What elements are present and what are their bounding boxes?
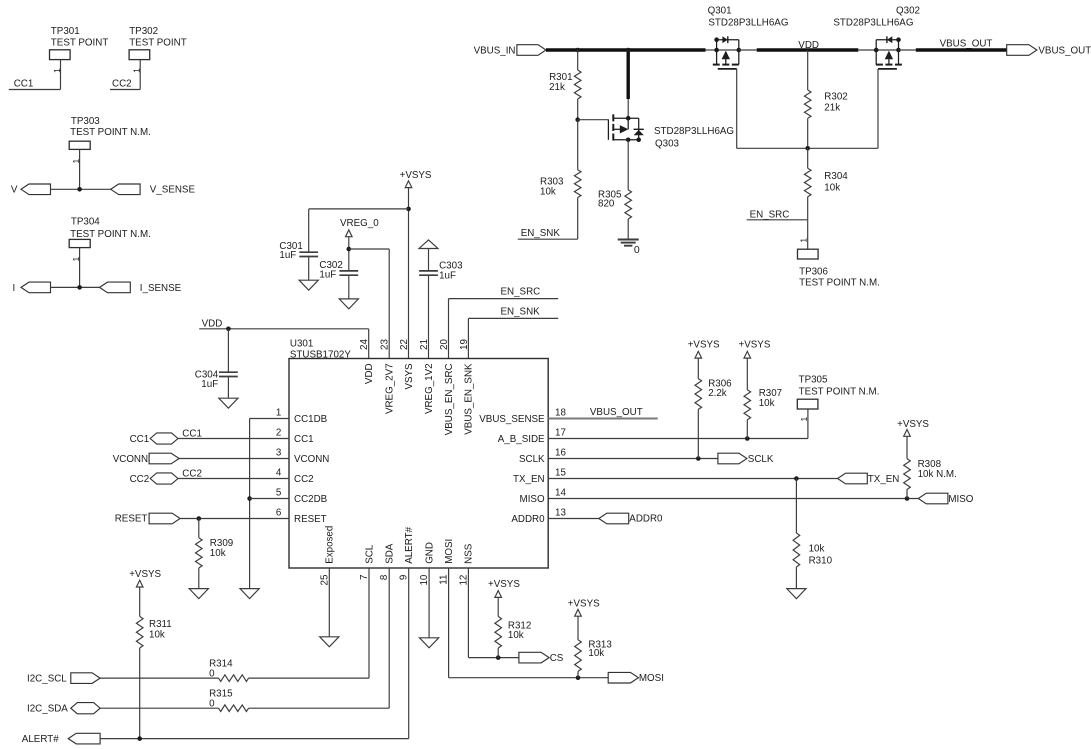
wire +VSYS to R308 bbox=[906, 436, 908, 458]
svg-text:10k: 10k bbox=[588, 648, 604, 659]
svg-text:Exposed: Exposed bbox=[325, 526, 336, 564]
svg-text:CC1: CC1 bbox=[14, 78, 34, 89]
svg-text:+VSYS: +VSYS bbox=[568, 598, 600, 609]
svg-text:23: 23 bbox=[380, 339, 391, 350]
wire Q302 gate down bbox=[877, 69, 879, 148]
svg-text:Q303: Q303 bbox=[655, 138, 680, 149]
port CS bbox=[519, 652, 564, 664]
svg-text:TEST POINT: TEST POINT bbox=[129, 37, 187, 48]
ground GND pin bbox=[420, 638, 439, 648]
svg-text:RESET: RESET bbox=[294, 514, 327, 525]
port ADDR0 bbox=[599, 513, 663, 525]
svg-text:13: 13 bbox=[555, 507, 566, 518]
port MISO bbox=[918, 493, 974, 505]
svg-text:SDA: SDA bbox=[385, 543, 396, 564]
wire R315 to pin 8 SDA bbox=[249, 568, 390, 708]
wire VBUS to R301 bbox=[577, 50, 579, 70]
port CC1 bbox=[130, 433, 178, 445]
svg-text:10k: 10k bbox=[210, 548, 226, 559]
wire R309 to ground bbox=[198, 568, 200, 589]
svg-text:VREG_0: VREG_0 bbox=[340, 218, 379, 229]
svg-text:I: I bbox=[12, 283, 15, 294]
power VREG_0 bbox=[340, 218, 379, 237]
pin 1 label TP304 bbox=[71, 257, 81, 262]
junction CS / R312 bbox=[496, 655, 501, 660]
resistor R314 0 bbox=[209, 659, 249, 682]
svg-text:21k: 21k bbox=[549, 82, 565, 93]
svg-text:A_B_SIDE: A_B_SIDE bbox=[498, 434, 545, 445]
svg-text:18: 18 bbox=[555, 407, 566, 418]
wire Exposed pin 25 to ground bbox=[328, 568, 330, 637]
svg-text:CC2DB: CC2DB bbox=[294, 494, 328, 505]
wire I2C_SCL to R314 bbox=[100, 677, 218, 679]
svg-text:EN_SRC: EN_SRC bbox=[501, 286, 541, 297]
junction +VSYS / C301 bbox=[406, 207, 411, 212]
capacitor C302 1uF bbox=[319, 260, 358, 280]
svg-text:CC2: CC2 bbox=[112, 78, 132, 89]
junction gate bus bbox=[805, 146, 810, 151]
svg-text:1uF: 1uF bbox=[201, 379, 218, 390]
wire VDD to R302 bbox=[807, 50, 809, 90]
svg-text:0: 0 bbox=[209, 699, 215, 710]
wire VBUS_OUT thick bbox=[916, 48, 1007, 51]
power +VSYS R311 bbox=[129, 569, 161, 587]
svg-text:TEST POINT N.M.: TEST POINT N.M. bbox=[799, 387, 880, 398]
svg-text:STD28P3LLH6AG: STD28P3LLH6AG bbox=[708, 18, 788, 29]
svg-text:Q301: Q301 bbox=[708, 6, 732, 17]
svg-text:R310: R310 bbox=[809, 556, 833, 567]
wire Q302 drain out bbox=[899, 49, 916, 51]
svg-text:ALERT#: ALERT# bbox=[22, 734, 59, 745]
wire +VSYS to R311 bbox=[139, 587, 141, 616]
wire gate node to Q303 gate bbox=[578, 119, 609, 121]
node EN_SRC (net label) bbox=[747, 209, 808, 220]
wire RESET to pin 6 bbox=[180, 518, 289, 520]
resistor R315 0 bbox=[209, 689, 249, 712]
power +VSYS R312 bbox=[488, 579, 520, 597]
svg-text:TEST POINT N.M.: TEST POINT N.M. bbox=[70, 127, 151, 138]
wire arrow to C303 bbox=[428, 249, 430, 271]
junction ALERT# / R311 bbox=[137, 736, 142, 741]
power arrow C303 bbox=[419, 240, 438, 249]
resistor R302 21k bbox=[804, 90, 847, 118]
node EN_SRC upper (net label) bbox=[449, 286, 559, 298]
wire GND pin 10 to ground bbox=[428, 568, 430, 638]
testpoint TP304 bbox=[69, 217, 151, 248]
pin 1 label TP301 bbox=[52, 68, 62, 73]
port CC2 bbox=[130, 473, 178, 485]
svg-text:10k N.M.: 10k N.M. bbox=[918, 469, 957, 480]
svg-text:TP303: TP303 bbox=[71, 116, 100, 127]
wire R303 to EN_SNK bbox=[577, 198, 579, 240]
junction VDD / C304 bbox=[226, 327, 231, 332]
svg-text:+VSYS: +VSYS bbox=[739, 340, 771, 351]
resistor R313 10k bbox=[575, 639, 613, 671]
node CC1 label bbox=[182, 428, 202, 439]
svg-text:EN_SRC: EN_SRC bbox=[750, 209, 790, 220]
capacitor C304 1uF bbox=[195, 329, 238, 390]
svg-text:CC2: CC2 bbox=[182, 468, 202, 479]
wire VDD to Q302 bbox=[858, 49, 876, 51]
wire VBUS_IN thick bbox=[546, 48, 706, 51]
svg-text:12: 12 bbox=[458, 575, 469, 586]
testpoint TP305 bbox=[797, 374, 879, 409]
svg-text:+VSYS: +VSYS bbox=[688, 340, 720, 351]
svg-text:MISO: MISO bbox=[948, 494, 973, 505]
ground CC1DB bbox=[240, 589, 259, 599]
ground C301 bbox=[299, 280, 318, 290]
svg-text:SCLK: SCLK bbox=[519, 454, 545, 465]
wire pin 14 MISO bbox=[548, 498, 918, 500]
node EN_SNK (net label) bbox=[518, 228, 578, 239]
wire gate bus to R304 bbox=[807, 148, 809, 168]
svg-text:1uF: 1uF bbox=[319, 269, 336, 280]
svg-text:TP306: TP306 bbox=[799, 267, 828, 278]
port SCLK bbox=[718, 453, 774, 465]
wire pin 18 VBUS_SENSE gray bbox=[548, 418, 658, 420]
wire pin1 CC1DB bbox=[250, 418, 289, 420]
wire pin 12 NSS down bbox=[468, 568, 519, 658]
wire +VSYS down to pin 22 bbox=[408, 188, 410, 359]
resistor R310 10k bbox=[793, 533, 832, 567]
power +VSYS R306 bbox=[688, 340, 720, 359]
node CC2 label bbox=[182, 468, 202, 479]
svg-text:VBUS_OUT: VBUS_OUT bbox=[1038, 45, 1091, 56]
svg-text:TEST POINT: TEST POINT bbox=[51, 37, 109, 48]
svg-text:10k: 10k bbox=[508, 630, 524, 641]
svg-text:CC2: CC2 bbox=[294, 474, 314, 485]
svg-text:11: 11 bbox=[439, 575, 450, 585]
resistor R308 10k N.M. bbox=[904, 459, 957, 490]
svg-text:+VSYS: +VSYS bbox=[488, 579, 520, 590]
svg-text:9: 9 bbox=[399, 575, 410, 580]
port V_SENSE bbox=[111, 184, 196, 196]
node VBUS_OUT pin18 (net label) bbox=[590, 407, 643, 418]
testpoint TP301 bbox=[50, 26, 109, 60]
port VCONN bbox=[113, 453, 179, 465]
svg-text:TEST POINT N.M.: TEST POINT N.M. bbox=[70, 229, 151, 240]
wire pin 13 ADDR0 bbox=[548, 518, 599, 520]
wire TX_EN to R310 bbox=[795, 479, 797, 534]
wire +VSYS to R312 bbox=[497, 597, 499, 616]
port VBUS_IN bbox=[474, 45, 546, 57]
svg-text:8: 8 bbox=[379, 574, 390, 580]
pin 1 label TP302 bbox=[132, 68, 142, 73]
svg-text:EN_SNK: EN_SNK bbox=[521, 228, 561, 239]
wire +VSYS to R306 bbox=[697, 358, 699, 379]
svg-text:MOSI: MOSI bbox=[444, 539, 455, 564]
wire CC1 to pin 2 bbox=[178, 438, 289, 440]
junction RESET / R309 bbox=[197, 516, 202, 521]
svg-text:5: 5 bbox=[276, 488, 282, 499]
svg-text:24: 24 bbox=[359, 339, 370, 350]
port TX_EN bbox=[838, 473, 900, 485]
junction node V bbox=[77, 187, 82, 192]
svg-text:CC1: CC1 bbox=[294, 434, 314, 445]
junction gate node Q303 bbox=[575, 117, 580, 122]
svg-text:10k: 10k bbox=[540, 187, 556, 198]
svg-text:16: 16 bbox=[555, 447, 566, 458]
ground R310 bbox=[787, 589, 806, 599]
resistor R305 820 bbox=[598, 189, 632, 219]
wire R305 to ground bbox=[627, 219, 629, 240]
wire to Q301 source bbox=[706, 49, 717, 51]
svg-text:1uF: 1uF bbox=[439, 271, 456, 282]
wire I to I_SENSE bbox=[51, 286, 100, 288]
wire pin 11 MOSI down bbox=[449, 568, 609, 678]
transistor Q302 STD28P3LLH6AG bbox=[833, 6, 920, 69]
wire pin 16 SCLK bbox=[548, 458, 718, 460]
svg-text:VREG_1V2: VREG_1V2 bbox=[424, 363, 435, 414]
svg-text:CC1DB: CC1DB bbox=[294, 414, 328, 425]
wire gate bus Q301-Q302 bbox=[737, 147, 878, 149]
svg-text:10: 10 bbox=[419, 574, 430, 585]
svg-text:SCL: SCL bbox=[364, 544, 375, 564]
junction A_B_SIDE / R307 bbox=[745, 436, 750, 441]
junction VBUS at R301 bbox=[575, 48, 580, 53]
svg-text:TP302: TP302 bbox=[129, 26, 158, 37]
ground C304 bbox=[219, 398, 238, 408]
wire gate node to R303 bbox=[577, 120, 579, 170]
port I2C_SCL bbox=[27, 673, 100, 685]
wire C303 to pin 21 bbox=[428, 275, 430, 358]
wire C302 to ground bbox=[348, 275, 350, 299]
svg-text:R304: R304 bbox=[824, 171, 848, 182]
power +VSYS R308 bbox=[897, 419, 929, 436]
wire R302 to gate bus bbox=[807, 118, 809, 148]
junction MISO / R308 bbox=[905, 496, 910, 501]
power +VSYS main bbox=[400, 170, 432, 188]
svg-text:U301: U301 bbox=[290, 338, 313, 349]
junction VREG_0 / C302 bbox=[347, 247, 352, 252]
junction TX_EN / R310 bbox=[794, 476, 799, 481]
svg-text:10k: 10k bbox=[809, 544, 825, 555]
svg-text:VCONN: VCONN bbox=[294, 454, 329, 465]
node VDD left (net label) bbox=[199, 319, 369, 330]
wire R313 to MOSI net bbox=[577, 671, 579, 677]
svg-text:STUSB1702Y: STUSB1702Y bbox=[290, 350, 351, 361]
wire +VSYS to R313 bbox=[577, 616, 579, 640]
svg-text:CS: CS bbox=[550, 653, 564, 664]
svg-text:ADDR0: ADDR0 bbox=[629, 514, 663, 525]
svg-text:7: 7 bbox=[359, 575, 370, 580]
svg-text:R311: R311 bbox=[149, 619, 172, 630]
junction MOSI / R313 bbox=[576, 675, 581, 680]
wire Q303 drain thin bbox=[627, 99, 629, 118]
svg-text:VBUS_EN_SNK: VBUS_EN_SNK bbox=[464, 363, 475, 435]
svg-text:VBUS_EN_SRC: VBUS_EN_SRC bbox=[444, 363, 455, 435]
svg-text:I_SENSE: I_SENSE bbox=[140, 283, 182, 294]
wire EN_SRC to pin 20 bbox=[448, 299, 450, 359]
wire VREG_0 to pin 23 bbox=[349, 249, 389, 359]
svg-text:STD28P3LLH6AG: STD28P3LLH6AG bbox=[833, 18, 913, 29]
port I bbox=[12, 282, 50, 294]
svg-text:10k: 10k bbox=[759, 398, 775, 409]
wire R314 to pin 7 SCL bbox=[249, 568, 369, 678]
pin 1 label TP306 bbox=[799, 238, 809, 243]
junction CC2DB bbox=[247, 496, 252, 501]
wire R307 to A_B_SIDE bbox=[746, 420, 748, 439]
junction node I bbox=[77, 285, 82, 290]
svg-text:TP305: TP305 bbox=[799, 374, 828, 385]
transistor Q301 STD28P3LLH6AG bbox=[708, 6, 789, 69]
port ALERT# bbox=[22, 733, 100, 745]
svg-text:10k: 10k bbox=[149, 630, 165, 641]
svg-text:1: 1 bbox=[799, 238, 809, 243]
wire R311 to ALERT# net bbox=[139, 648, 141, 739]
capacitor C303 1uF bbox=[419, 260, 463, 281]
port VBUS_OUT bbox=[1007, 45, 1091, 57]
svg-text:MOSI: MOSI bbox=[639, 673, 664, 684]
power +VSYS R313 bbox=[568, 598, 600, 616]
svg-text:VDD: VDD bbox=[202, 319, 223, 330]
node CC2 (net label) bbox=[110, 78, 140, 89]
resistor R309 10k bbox=[196, 538, 234, 568]
ground C302 bbox=[339, 299, 358, 309]
wire TP303 down bbox=[79, 149, 81, 189]
svg-text:3: 3 bbox=[276, 448, 282, 459]
wire +VSYS to R307 bbox=[746, 358, 748, 390]
wire ALERT# to pin 9 bbox=[100, 568, 409, 739]
svg-text:VBUS_SENSE: VBUS_SENSE bbox=[479, 414, 545, 425]
wire TP304 down bbox=[79, 248, 81, 288]
wire VCONN to pin 3 bbox=[179, 458, 289, 460]
testpoint TP303 bbox=[69, 116, 151, 149]
wire A_B_SIDE up to TP305 bbox=[807, 409, 809, 438]
svg-text:TX_EN: TX_EN bbox=[513, 474, 545, 485]
svg-text:VDD: VDD bbox=[798, 40, 819, 51]
svg-text:VDD: VDD bbox=[364, 363, 375, 384]
wire C304 to ground bbox=[227, 377, 229, 399]
svg-text:1: 1 bbox=[276, 408, 281, 419]
svg-text:CC1: CC1 bbox=[130, 434, 150, 445]
svg-text:0: 0 bbox=[209, 668, 215, 679]
wire I2C_SDA to R315 bbox=[100, 707, 218, 709]
svg-text:2.2k: 2.2k bbox=[708, 388, 727, 399]
svg-text:VCONN: VCONN bbox=[113, 454, 148, 465]
pin 1 label TP303 bbox=[71, 159, 81, 164]
svg-text:TEST POINT N.M.: TEST POINT N.M. bbox=[799, 278, 880, 289]
resistor R301 21k bbox=[549, 70, 581, 99]
svg-text:SCLK: SCLK bbox=[748, 454, 774, 465]
svg-text:4: 4 bbox=[276, 468, 282, 479]
svg-text:VBUS_OUT: VBUS_OUT bbox=[940, 38, 993, 49]
wire R306 to SCLK bbox=[697, 409, 699, 458]
svg-text:MISO: MISO bbox=[520, 494, 545, 505]
svg-text:21: 21 bbox=[419, 339, 430, 350]
wire +VSYS to C301 bbox=[309, 208, 409, 210]
svg-text:STD28P3LLH6AG: STD28P3LLH6AG bbox=[654, 126, 734, 137]
svg-text:10k: 10k bbox=[824, 183, 840, 194]
svg-text:TX_EN: TX_EN bbox=[868, 474, 900, 485]
op-amp U301 STUSB1702Y outline bbox=[289, 338, 548, 568]
svg-text:14: 14 bbox=[555, 487, 566, 498]
wire pin5 CC2DB bbox=[250, 498, 289, 500]
wire RESET to R309 bbox=[198, 519, 200, 538]
wire R312 to CS net bbox=[497, 648, 499, 658]
svg-text:+VSYS: +VSYS bbox=[897, 419, 929, 430]
node VDD (net label) bbox=[798, 40, 819, 51]
svg-text:I2C_SCL: I2C_SCL bbox=[27, 673, 67, 684]
node EN_SNK upper (net label) bbox=[468, 306, 558, 318]
wire R308 to MISO bbox=[906, 489, 908, 498]
wire R310 to ground bbox=[795, 567, 797, 589]
port RESET bbox=[115, 513, 180, 525]
svg-text:GND: GND bbox=[424, 542, 435, 564]
svg-text:2: 2 bbox=[276, 428, 281, 439]
svg-text:25: 25 bbox=[319, 574, 330, 585]
svg-text:V_SENSE: V_SENSE bbox=[150, 185, 196, 196]
wire Q303 drain thick bbox=[627, 48, 630, 99]
svg-text:15: 15 bbox=[555, 467, 566, 478]
junction SCLK / R306 bbox=[696, 456, 701, 461]
svg-text:6: 6 bbox=[276, 508, 282, 519]
wire EN_SRC to TP306 bbox=[807, 220, 809, 249]
svg-text:+VSYS: +VSYS bbox=[129, 569, 161, 580]
node VBUS_OUT (net label) bbox=[940, 38, 993, 49]
svg-text:I2C_SDA: I2C_SDA bbox=[27, 703, 68, 714]
svg-text:VREG_2V7: VREG_2V7 bbox=[385, 363, 396, 414]
wire R301 to gate node bbox=[577, 99, 579, 120]
resistor R311 10k bbox=[136, 616, 171, 648]
wire C301 to ground bbox=[308, 257, 310, 281]
capacitor C301 1uF bbox=[279, 209, 318, 261]
svg-text:820: 820 bbox=[598, 199, 615, 210]
svg-text:19: 19 bbox=[459, 339, 470, 350]
svg-text:CC1: CC1 bbox=[182, 428, 202, 439]
wire pin 15 TX_EN bbox=[548, 478, 837, 480]
wire V to V_SENSE bbox=[51, 188, 111, 190]
wire TP301 to CC1 bbox=[60, 60, 62, 90]
transistor Q303 STD28P3LLH6AG bbox=[608, 114, 734, 149]
port I_SENSE bbox=[100, 282, 182, 294]
resistor R312 10k bbox=[495, 616, 531, 648]
port V bbox=[11, 184, 51, 196]
svg-text:RESET: RESET bbox=[115, 514, 148, 525]
resistor R303 10k bbox=[540, 170, 581, 198]
svg-text:1: 1 bbox=[799, 417, 809, 422]
ground 0 earth bbox=[618, 240, 640, 256]
wire EN_SNK to pin 19 bbox=[467, 318, 469, 358]
svg-text:VBUS_OUT: VBUS_OUT bbox=[590, 407, 643, 418]
wire VREG_0 down bbox=[348, 237, 350, 271]
wire TP302 to CC2 bbox=[139, 60, 141, 90]
svg-text:22: 22 bbox=[399, 339, 410, 350]
ground R309 bbox=[189, 589, 208, 599]
wire Q301 drain to VDD bbox=[739, 49, 757, 51]
testpoint TP306 bbox=[798, 249, 880, 288]
resistor R304 10k bbox=[804, 168, 848, 196]
wire CC2 to pin 4 bbox=[178, 478, 289, 480]
svg-text:NSS: NSS bbox=[464, 543, 475, 564]
svg-text:VSYS: VSYS bbox=[404, 363, 415, 390]
testpoint TP302 bbox=[129, 26, 187, 60]
svg-text:R302: R302 bbox=[824, 92, 847, 103]
node CC1 (net label) bbox=[9, 78, 61, 89]
ground Exposed bbox=[320, 637, 339, 647]
svg-text:TP304: TP304 bbox=[71, 217, 100, 228]
svg-text:TP301: TP301 bbox=[51, 26, 80, 37]
svg-text:17: 17 bbox=[555, 427, 566, 438]
wire CC1DB down to ground bbox=[249, 419, 251, 589]
svg-text:20: 20 bbox=[439, 339, 450, 350]
svg-text:+VSYS: +VSYS bbox=[400, 170, 432, 181]
svg-text:1uF: 1uF bbox=[279, 250, 296, 261]
wire R304 to EN_SRC bbox=[807, 197, 809, 220]
resistor R307 10k bbox=[744, 388, 782, 420]
power +VSYS R307 bbox=[739, 340, 771, 359]
resistor R306 2.2k bbox=[695, 378, 732, 409]
